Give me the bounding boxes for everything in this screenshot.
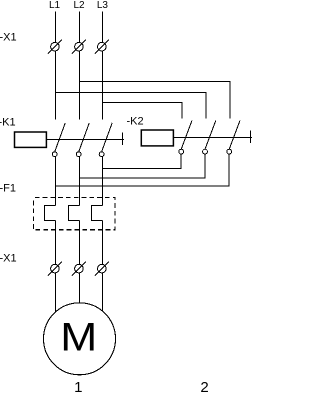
- svg-text:L2: L2: [73, 0, 85, 11]
- motor M1 circle: [44, 303, 116, 375]
- heater element F1 phase 1: [45, 205, 56, 220]
- svg-text:L1: L1: [49, 0, 61, 11]
- svg-text:1: 1: [74, 379, 82, 394]
- wire L1 to K1 contact 1: [55, 51, 57, 120]
- wire tap L1 to K2 contact 2: [56, 92, 206, 118]
- wire X1 to motor W: [101, 273, 103, 311]
- coil box K1: [15, 132, 47, 147]
- wire L2 top: [79, 12, 81, 43]
- wire K1 pole 1 down to F1: [55, 157, 57, 206]
- terminal X1:1: [48, 40, 62, 54]
- svg-text:-F1: -F1: [0, 183, 16, 195]
- terminal X1:2: [72, 40, 86, 54]
- wire L3 top: [101, 12, 103, 43]
- contact K2 pole 2: [203, 121, 216, 155]
- terminal X1:5: [72, 262, 86, 276]
- svg-text:M: M: [60, 315, 97, 359]
- heater element F1 phase 3: [91, 205, 102, 220]
- linkage end bar K1: [121, 132, 123, 145]
- wire K2 pole 1 return to phase 3: [102, 154, 181, 169]
- wire L2 to K1 contact 2: [79, 51, 81, 120]
- contact K1 pole 1: [52, 123, 65, 157]
- wire X1 to motor V: [79, 273, 81, 303]
- wire K1 pole 2 down to F1: [79, 157, 81, 206]
- wire F1 phase 1 to X1 bottom: [55, 221, 57, 265]
- linkage line K1: [46, 138, 124, 140]
- coil box K2: [141, 130, 173, 146]
- svg-text:-X1: -X1: [0, 32, 17, 44]
- wire F1 phase 3 to X1 bottom: [101, 221, 103, 265]
- wire L3 to K1 contact 3: [101, 51, 103, 120]
- contact K1 pole 3: [99, 123, 112, 157]
- terminal X1:4: [48, 262, 62, 276]
- wire K2 pole 3 return to phase 1: [56, 154, 230, 186]
- wire tap L2 to K2 contact 3: [80, 81, 231, 118]
- svg-text:-X1: -X1: [0, 253, 17, 265]
- contact K1 pole 2: [76, 123, 89, 157]
- wire L1 top: [55, 12, 57, 43]
- heater element F1 phase 2: [69, 205, 80, 220]
- svg-text:2: 2: [200, 379, 208, 394]
- contact K2 pole 1: [179, 121, 192, 155]
- terminal X1:3: [95, 40, 109, 54]
- linkage end bar K2: [249, 130, 251, 143]
- wire tap L3 to K2 contact 1: [102, 102, 182, 118]
- wire F1 phase 2 to X1 bottom: [79, 221, 81, 265]
- linkage line K2: [173, 136, 252, 138]
- svg-text:-K2: -K2: [127, 116, 144, 128]
- overload relay F1 dashed box: [33, 198, 115, 230]
- svg-text:-K1: -K1: [0, 116, 16, 128]
- wire K2 pole 2 return to phase 2: [80, 154, 206, 178]
- svg-text:L3: L3: [97, 0, 109, 11]
- wire X1 to motor U: [55, 273, 57, 312]
- wire K1 pole 3 down to F1: [101, 157, 103, 206]
- contact K2 pole 3: [227, 121, 240, 155]
- terminal X1:6: [95, 262, 109, 276]
